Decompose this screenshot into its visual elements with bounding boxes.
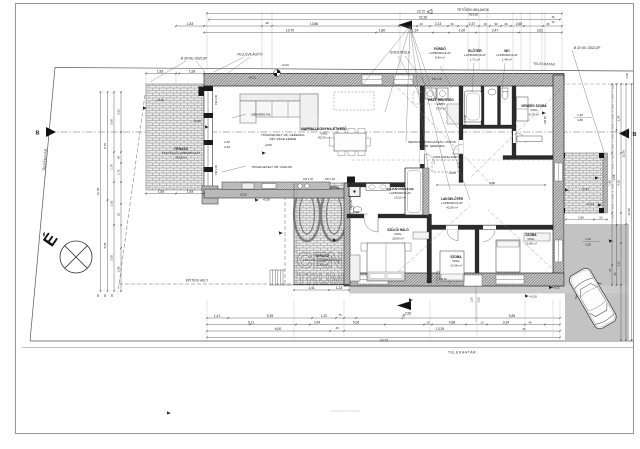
svg-text:90: 90 [494,22,498,26]
svg-text:40: 40 [504,22,508,26]
svg-text:Ø 30 VB. OSZLOP: Ø 30 VB. OSZLOP [574,46,601,50]
furdo bathtub [465,91,482,122]
terrace 1 upper-left paving [146,84,204,190]
svg-text:80,33 m²: 80,33 m² [318,136,330,140]
svg-text:TELEKHATÁR: TELEKHATÁR [533,62,556,67]
bottom dimension chain row4 total [207,337,560,339]
svg-text:10,22 m²: 10,22 m² [394,195,406,199]
door arc corridor [453,144,463,154]
svg-text:PM 3,00: PM 3,00 [349,199,353,210]
north compass circle [60,241,92,273]
svg-text:2,94: 2,94 [314,320,321,324]
top dimension chain row3 [176,25,562,27]
svg-text:13,29: 13,29 [436,327,444,331]
svg-text:13,86 m²: 13,86 m² [525,241,537,245]
svg-text:+0,22: +0,22 [239,193,247,197]
svg-text:PM 2,00: PM 2,00 [303,177,314,181]
svg-text:46: 46 [546,22,550,26]
svg-text:PM 3,00: PM 3,00 [214,164,218,175]
svg-text:SZEMPERI FAL: SZEMPERI FAL [251,113,271,117]
svg-text:1,14: 1,14 [412,28,419,32]
svg-text:18,80 m²: 18,80 m² [392,236,404,240]
terrace 3 right paving [562,153,603,213]
svg-text:PM 1,00: PM 1,00 [432,77,443,81]
svg-text:1,09: 1,09 [353,210,359,214]
interior wall corridor x460 [459,86,463,183]
house south-west wall corner hatched [202,186,218,204]
roof line dashed 4 [488,210,556,272]
svg-text:10,70: 10,70 [286,28,294,32]
svg-text:10: 10 [483,22,487,26]
bottom dim extension lines [206,300,208,338]
svg-text:1,20: 1,20 [577,113,583,117]
svg-text:46: 46 [522,327,526,331]
svg-text:12,08: 12,08 [622,150,626,158]
szuloi halo bed [367,243,405,281]
svg-text:13,08 m²: 13,08 m² [450,263,462,267]
svg-text:1,75: 1,75 [110,164,114,170]
epitesi hely dashed boundary inner vertical [284,198,286,284]
svg-text:+0,45: +0,45 [156,98,164,102]
kitchen appliances on counter [242,183,254,189]
svg-text:39,08 m²: 39,08 m² [175,155,187,159]
property boundary line left (telekhatar) [30,68,55,342]
top dimension chain row4 [204,32,562,34]
door arc szuloi halo [364,218,378,232]
szoba1 desk [413,232,429,239]
svg-text:1,80: 1,80 [577,118,583,122]
svg-text:1,71 m²: 1,71 m² [470,57,480,61]
roof line dashed 1 [398,88,493,186]
svg-text:5,85: 5,85 [509,314,516,318]
svg-text:2,60: 2,60 [578,216,584,220]
roof line dashed 2 [470,90,560,178]
wc toilet [502,91,508,99]
interior wall szuloi/szoba vertical [427,214,432,283]
eloter label leader [472,63,474,92]
bottom wall window opening 1 [358,275,388,284]
svg-text:2,24: 2,24 [612,174,616,180]
door opening gaps (white) [446,226,458,230]
svg-text:3,90: 3,90 [110,119,114,125]
kitchen counter hatched band [222,182,330,190]
svg-text:ÜVEGTÉGLA: ÜVEGTÉGLA [390,50,411,55]
svg-text:3,05: 3,05 [110,255,114,261]
svg-text:2,13: 2,13 [435,22,442,26]
oszlop right leader [572,50,604,152]
shower room bottom wall [347,214,364,218]
oszlop left leaders [196,61,205,72]
right wall window opening 2 [555,240,563,262]
property boundary line top (telekhatar) [55,68,633,72]
svg-text:12,58: 12,58 [96,187,100,195]
svg-text:1,41: 1,41 [308,286,315,290]
terrace 2 lower-middle paving [294,183,349,285]
bottom dimension chain row1 [207,317,560,319]
svg-text:6,52: 6,52 [117,109,121,115]
interior wall vendeg bottom [503,156,553,160]
svg-text:1,90: 1,90 [608,180,612,186]
svg-text:+0,20: +0,20 [529,295,537,299]
interior wall bedrooms horizontal [431,225,553,230]
svg-text:CEN: CEN [297,248,343,273]
dining table with chairs [330,129,371,156]
svg-text:1,83: 1,83 [158,190,165,194]
svg-text:PM 90: PM 90 [543,116,547,124]
svg-text:+0,44: +0,44 [581,187,589,191]
terrace2 left edge line [293,183,295,285]
svg-text:46: 46 [551,15,555,19]
svg-text:4,88: 4,88 [449,320,456,324]
left dimension chain lines [100,92,102,291]
svg-text:1,00: 1,00 [625,73,629,79]
interior wall szoba2 vertical [475,229,479,273]
entrance axis vertical line and labels [475,285,477,322]
svg-text:5,35: 5,35 [267,314,274,318]
svg-text:PADLÁSFELJÁRÓ: PADLÁSFELJÁRÓ [433,154,459,159]
svg-text:40: 40 [117,156,121,160]
house left glass wall with columns [204,86,213,198]
terrace2 right wall hatched [344,183,350,285]
terrace2 bottom edge line [294,284,349,286]
svg-text:Ø 39 VB. OSZLOP: Ø 39 VB. OSZLOP [181,57,208,61]
section marker B right [619,129,629,139]
furdo label leader [440,66,452,88]
svg-text:PM 2,00: PM 2,00 [214,94,218,105]
svg-text:1,00: 1,00 [459,28,466,32]
living room south wall / kitchen band [204,189,350,198]
right wall window opening [555,163,563,181]
svg-text:22,26: 22,26 [419,15,427,19]
svg-text:FELÜLVILÁGÍTÓ: FELÜLVILÁGÍTÓ [237,52,263,57]
vendeg szoba wardrobe [517,97,529,121]
svg-text:B: B [36,131,40,137]
szuloi wardrobe [350,255,360,281]
felulvilagito leaders [214,57,244,72]
right dimension chains [611,84,613,285]
svg-text:1,83: 1,83 [187,190,194,194]
svg-text:B: B [633,132,637,138]
shower enclosure side wall hatched [423,168,429,215]
svg-text:5,85: 5,85 [103,242,107,248]
top dimension chain row1 22,72 [207,13,562,15]
svg-text:28: 28 [265,21,269,25]
svg-text:1,93: 1,93 [189,70,196,74]
interior wall vendeg left x512 [512,86,516,159]
svg-text:TELEKHATÁR: TELEKHATÁR [448,351,476,355]
vendeg szoba bench [517,136,542,142]
skylight leader fan [362,26,410,85]
svg-text:1,20: 1,20 [585,237,591,241]
svg-text:10: 10 [426,320,430,324]
svg-text:9,88: 9,88 [489,181,495,185]
top wall window opening 1 [362,75,382,85]
svg-text:1,50: 1,50 [585,243,591,247]
svg-text:4,15: 4,15 [617,180,621,186]
epitesi hely dashed boundary left [118,95,145,292]
svg-text:+0,00: +0,00 [448,171,456,175]
parcel edge second line bottom [22,347,633,349]
section line B-B dash-dot [48,131,630,133]
svg-text:2,40: 2,40 [353,215,359,219]
top dim extension lines [206,11,208,70]
svg-text:42,06 m²: 42,06 m² [446,205,458,209]
wc label leader [502,63,505,90]
interior wall bath row bottom [463,125,516,129]
ceiling change dashed line [352,159,560,161]
door arc vendeg [516,133,526,143]
svg-text:ÉPÍTÉSI HELY: ÉPÍTÉSI HELY [186,278,209,283]
bottom dimension chain row2 [207,324,560,326]
svg-text:1,20: 1,20 [321,314,328,318]
svg-text:8,70: 8,70 [103,143,107,149]
washbasin pair [366,184,390,191]
furdo sink [488,89,496,95]
driveway small dims [566,219,607,221]
door arc hazt [425,154,435,164]
svg-text:40: 40 [551,20,555,24]
svg-text:10: 10 [419,22,423,26]
shower room toilet [354,207,362,213]
svg-text:1,20: 1,20 [470,297,474,303]
svg-text:13,86: 13,86 [310,22,318,26]
svg-text:+0,22: +0,22 [586,202,594,206]
svg-text:12,58: 12,58 [627,208,631,216]
sofa L-shaped living room [240,94,318,130]
szoba1 bed [440,251,464,281]
svg-text:1,23: 1,23 [336,286,343,290]
svg-text:2,47: 2,47 [492,28,499,32]
svg-text:10: 10 [450,22,454,26]
interior wall wc x481 [481,86,484,128]
svg-text:2,92: 2,92 [110,200,114,206]
svg-text:1,58: 1,58 [117,266,121,272]
shower enclosure tall [405,168,423,215]
svg-text:1,80: 1,80 [379,28,386,32]
right boundary dashed line [612,84,614,340]
door arc szoba2 [483,230,495,242]
shower room corner box [349,187,360,197]
svg-text:FM 1,88: FM 1,88 [463,115,467,125]
tiny mark bottom area [330,410,360,412]
section marker B left [46,127,56,137]
bottom wall window opening 2 [496,275,524,284]
house right exterior wall [553,75,564,286]
bottom wall entrance opening [464,275,482,286]
kitchen upper cabinets dashed [334,92,374,110]
svg-text:+0,20: +0,20 [281,63,289,67]
bedroom block top wall [348,183,406,188]
svg-text:2,68: 2,68 [516,22,523,26]
watermark OC CENTRUM [294,187,347,288]
svg-text:46: 46 [335,326,339,330]
terrace2 bottom mini dims [294,289,349,291]
svg-text:1,75: 1,75 [117,169,121,175]
car on driveway [565,265,621,333]
bottom dimension chain row3 [207,330,560,332]
svg-text:TETŐSÍKI ABLAKOK: TETŐSÍKI ABLAKOK [457,7,490,12]
svg-text:22,72: 22,72 [417,9,425,13]
interior wall hazt helyiseg left [420,86,425,183]
svg-text:2,40: 2,40 [224,140,230,144]
svg-text:1,21: 1,21 [214,314,221,318]
svg-text:NAPPALI-KONYHA-ÉTKEZŐ: NAPPALI-KONYHA-ÉTKEZŐ [301,126,347,131]
top wall window opening 2 [394,75,413,85]
terrace1 top mini dims [146,73,204,75]
svg-text:3,61: 3,61 [537,28,544,32]
house top exterior wall [204,74,564,87]
top dimension chain row2 22,26 [209,19,560,21]
hazt helyiseg washer dryer [425,88,436,99]
svg-text:1,48 m²: 1,48 m² [502,57,512,61]
svg-text:10: 10 [117,213,121,217]
bottom left arrow marker [397,301,411,310]
svg-text:+0,28: +0,28 [262,198,270,202]
svg-text:10: 10 [480,320,484,324]
house bottom exterior wall [344,273,564,286]
svg-text:5,08: 5,08 [353,320,360,324]
top-left corner column [199,87,206,97]
dim 9,88 lakoeloter [437,184,545,186]
survey point quartered circle on top wall [274,70,281,77]
svg-text:+0,22: +0,22 [552,286,560,290]
steps hatch left of terrace2 [270,270,283,285]
door arc entrance [437,271,450,284]
skylight marker triangle [398,21,412,30]
door arc szoba1 [447,230,458,241]
svg-text:6,79 m²: 6,79 m² [529,112,539,116]
svg-text:3,34: 3,34 [503,320,510,324]
driveway paved area grey [565,224,629,340]
svg-text:1,83: 1,83 [187,22,194,26]
svg-text:·: · [345,411,346,415]
walkway strip below bottom wall grey [349,286,629,294]
svg-text:5,75 m²: 5,75 m² [436,106,446,110]
epitesi hely dashed boundary bottom [119,283,294,285]
svg-text:+0,22: +0,22 [248,76,256,80]
svg-text:9,40 m²: 9,40 m² [435,55,445,59]
terrace 3 right edge hatched strip [603,153,608,213]
svg-text:75: 75 [338,313,342,317]
roof line dashed 3 [398,206,470,272]
svg-text:PM 90: PM 90 [439,277,447,281]
svg-text:+0,50: +0,50 [264,143,272,147]
terrace 3 corner columns [560,153,565,158]
svg-text:78/118: 78/118 [468,12,478,16]
survey flags [262,151,265,155]
svg-text:5,11: 5,11 [248,320,254,324]
svg-text:HŐSZIGETELT VB. OSZLOP: HŐSZIGETELT VB. OSZLOP [252,164,292,169]
uvegtegla leaders [405,56,458,128]
svg-text:ÉS VB. GERENDA: ÉS VB. GERENDA [419,143,444,148]
svg-text:KÉT VÉGE FERDE: KÉT VÉGE FERDE [270,136,297,141]
terrace1 bottom mini dims [146,193,204,195]
svg-text:22,72: 22,72 [380,339,388,343]
svg-text:+0,46: +0,46 [193,119,201,123]
attic access dashed padlasfeljaro [432,160,458,172]
svg-text:6,00: 6,00 [275,327,282,331]
corner column kitchen-terrace2 [347,177,355,184]
svg-text:46: 46 [528,320,532,324]
svg-text:2,40: 2,40 [224,145,230,149]
svg-text:2,24: 2,24 [617,115,621,121]
offset dashed line top right [560,83,633,85]
szoba2 bed [496,240,520,272]
svg-text:1,83: 1,83 [157,70,164,74]
interior wall wc x497 [498,86,501,128]
property boundary line bottom (telekhatar) [30,340,633,342]
svg-text:4,23: 4,23 [617,261,621,267]
szoba2 wardrobe [524,233,550,241]
svg-text:PM 1,90: PM 1,90 [325,177,336,181]
svg-text:2,37: 2,37 [469,22,476,26]
